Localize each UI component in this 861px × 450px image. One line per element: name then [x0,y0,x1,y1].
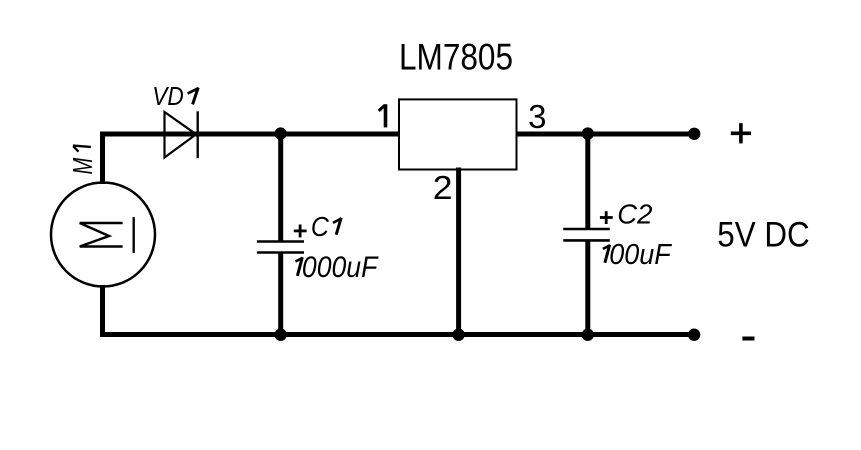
diode VD1 [165,111,198,158]
svg-text:3: 3 [528,98,546,135]
svg-text:M: M [67,158,98,175]
junction node pin2 bottom [452,329,464,341]
label 1000uF [296,251,380,284]
wire motor bottom lead [100,285,105,337]
junction node C2 top [582,127,594,139]
junction node C1 bottom [275,329,287,341]
pin label 1 [379,104,386,127]
label C1 [311,211,342,242]
wire bottom rail [100,332,694,337]
svg-text:C: C [311,211,330,242]
motor M1 [51,183,155,287]
svg-text:2: 2 [433,169,453,206]
capacitor C2 [563,134,610,335]
label plus output [731,123,751,143]
output terminal plus node [688,128,700,140]
wire motor top lead [100,132,105,185]
C1 polarity plus sign [294,225,307,238]
junction node C1 top [274,127,286,139]
label minus output [742,337,754,341]
junction node C2 bottom [582,329,594,341]
label 100uF [603,239,672,271]
label VD1 [152,81,198,111]
capacitor C1 [257,134,304,335]
svg-text:LM7805: LM7805 [399,37,513,78]
svg-text:VD: VD [152,81,184,111]
svg-text:C2: C2 [617,198,652,229]
output terminal minus node [688,329,700,341]
label M1 [67,146,98,175]
svg-text:00uF: 00uF [609,239,672,271]
wire top rail right segment [516,132,694,137]
svg-text:000uF: 000uF [302,251,379,284]
C2 polarity plus sign [600,211,613,224]
svg-text:5V DC: 5V DC [717,215,809,255]
wire top rail left segment [100,132,399,137]
IC U1 LM7805 box [399,99,517,169]
wire pin 2 to ground rail [456,168,461,335]
